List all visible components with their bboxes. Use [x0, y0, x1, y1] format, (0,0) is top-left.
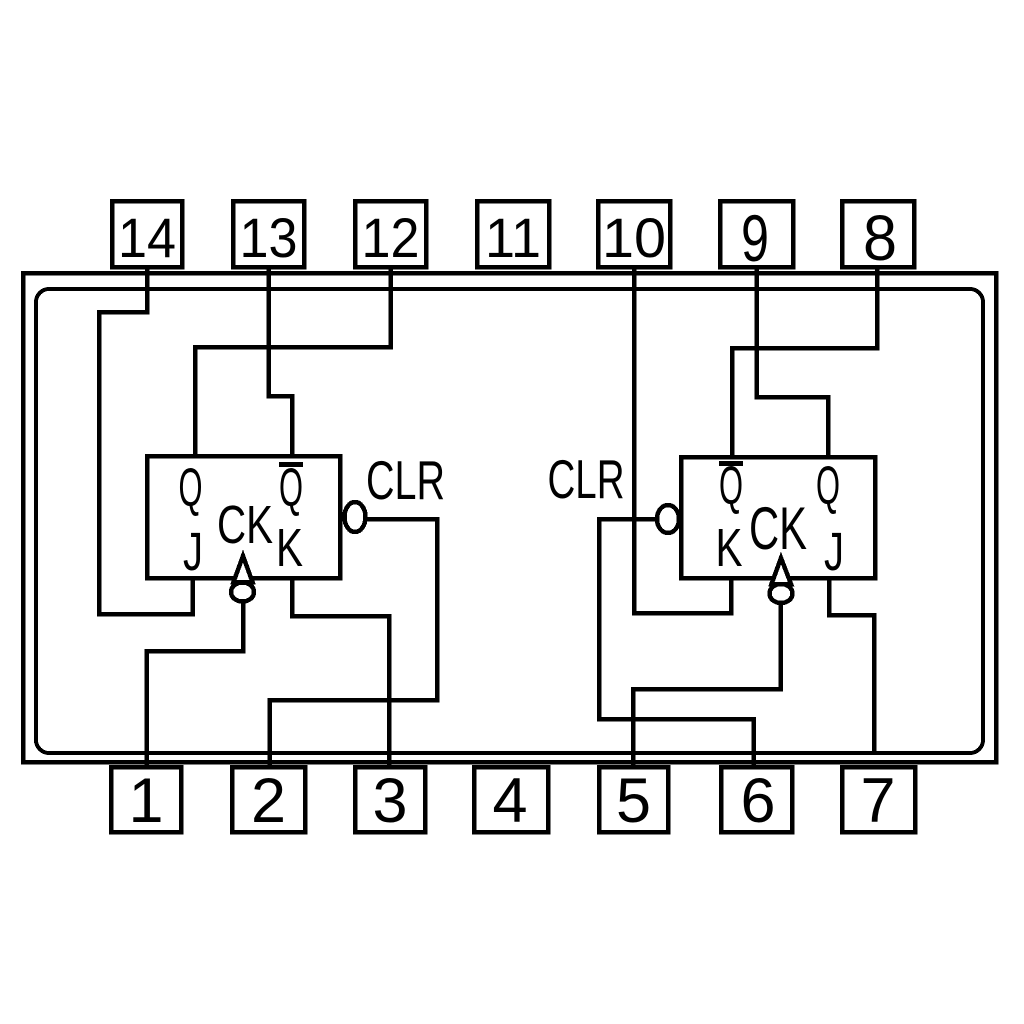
pin 6 box — [721, 767, 792, 832]
svg-text:K: K — [716, 518, 743, 578]
svg-text:CK: CK — [217, 495, 273, 555]
pin 5 box — [599, 767, 668, 832]
pin 7 box — [842, 767, 915, 832]
wire U1B J input to pin7 — [829, 576, 874, 751]
wire U1B clock to pin5 — [633, 601, 781, 766]
svg-text:3: 3 — [372, 766, 407, 836]
pin 1 box — [111, 767, 181, 832]
svg-text:9: 9 — [741, 201, 769, 275]
wire pin12 to U1A Q output — [195, 267, 391, 458]
svg-text:10: 10 — [602, 206, 666, 269]
pin 9 box — [720, 201, 793, 267]
svg-text:6: 6 — [740, 766, 775, 836]
svg-text:11: 11 — [485, 206, 541, 269]
svg-text:14: 14 — [118, 206, 176, 269]
svg-text:K: K — [276, 518, 303, 578]
wire pin8 to U1B Qbar output — [732, 267, 877, 458]
svg-text:4: 4 — [492, 766, 527, 836]
pin 11 box — [477, 201, 549, 267]
flip-flop U1B box — [681, 457, 875, 578]
pin 13 box — [233, 201, 304, 267]
U1B CLR input bubble — [657, 505, 679, 533]
U1A Qbar overline — [279, 462, 303, 467]
svg-text:CK: CK — [749, 495, 807, 562]
pin 12 box — [355, 201, 426, 267]
U1B Qbar overline — [719, 461, 743, 466]
wire U1A K input to pin3 — [292, 576, 389, 766]
U1B clock arrow indicator — [770, 558, 793, 603]
svg-text:8: 8 — [863, 202, 897, 274]
svg-text:13: 13 — [240, 206, 298, 269]
svg-text:5: 5 — [616, 766, 651, 836]
svg-text:J: J — [183, 522, 203, 582]
svg-text:CLR: CLR — [548, 448, 625, 510]
wire pin13 to U1A Qbar output — [269, 267, 293, 458]
svg-text:Q: Q — [179, 458, 203, 518]
pin 10 box — [598, 201, 670, 267]
wire U1A clock to pin1 — [147, 601, 244, 766]
svg-text:7: 7 — [860, 766, 895, 836]
svg-text:CLR: CLR — [366, 449, 445, 511]
wire U1A CLR bubble to pin2 — [270, 519, 438, 766]
IC body inner outline — [36, 289, 983, 753]
pin 14 box — [112, 201, 182, 267]
wire pin14 to U1A J input — [99, 267, 193, 614]
svg-text:12: 12 — [362, 206, 420, 269]
wire U1B CLR bubble to pin6 — [599, 519, 754, 766]
pin 8 box — [842, 201, 914, 267]
svg-text:1: 1 — [128, 766, 163, 836]
pin 3 box — [355, 767, 425, 832]
U1A CLR input bubble — [345, 502, 366, 532]
wire pin9 to U1B Q output — [757, 267, 829, 458]
flip-flop U1A box — [147, 456, 340, 578]
wire pin10 to U1B K input — [634, 267, 731, 613]
svg-text:2: 2 — [251, 766, 286, 836]
pin 2 box — [232, 767, 305, 832]
U1A clock arrow indicator — [231, 556, 254, 602]
svg-text:Q: Q — [816, 456, 840, 516]
pin 4 box — [474, 767, 548, 832]
IC body outer outline — [23, 273, 996, 762]
svg-text:J: J — [824, 522, 844, 582]
